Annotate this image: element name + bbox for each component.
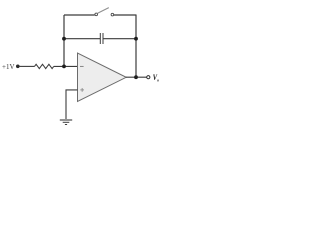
- node +1V input terminal: [16, 65, 20, 69]
- wire capacitor left lead: [64, 38, 100, 40]
- wire capacitor right lead: [103, 38, 136, 40]
- op-amp U1 non-inverting pin mark: [80, 88, 84, 92]
- wire input to resistor: [19, 65, 35, 67]
- switch S1 right contact: [111, 13, 114, 16]
- resistor R1: [35, 64, 54, 68]
- wire output: [126, 76, 147, 78]
- switch S1 lever: [98, 8, 109, 14]
- junction output feedback node: [134, 75, 138, 79]
- svg-text:Vo: Vo: [153, 72, 159, 82]
- switch S1 left contact: [95, 13, 98, 16]
- junction left capacitor node: [62, 37, 66, 41]
- junction inverting input node: [62, 65, 66, 69]
- wire left vertical feedback: [63, 15, 65, 67]
- svg-text:+1V: +1V: [2, 63, 15, 71]
- wire top-right segment: [114, 14, 137, 16]
- junction right capacitor node: [134, 37, 138, 41]
- wire resistor to inverting input: [54, 65, 78, 67]
- op-amp U1: [78, 53, 127, 102]
- wire right vertical feedback: [135, 15, 137, 77]
- wire top-left segment: [64, 14, 95, 16]
- op-amp U1 inverting pin mark: [80, 65, 84, 67]
- node Vo output terminal: [147, 76, 150, 79]
- capacitor C1: [100, 33, 103, 44]
- ground: [60, 120, 72, 125]
- wire non-inverting input to ground: [66, 90, 78, 119]
